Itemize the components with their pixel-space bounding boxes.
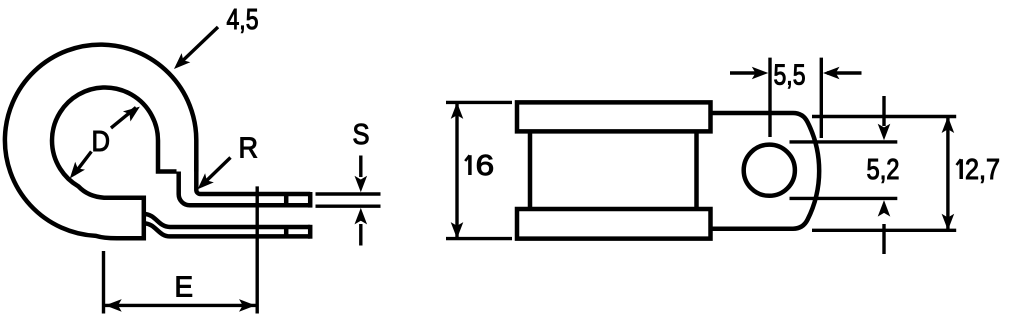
lower strap bottom edge with S-jog xyxy=(144,223,310,236)
dimension 12,7 extension lines xyxy=(812,117,956,231)
lower strap top edge with S-jog xyxy=(144,214,310,227)
svg-text:6: 6 xyxy=(476,150,495,182)
bottom flange rectangle (right view) xyxy=(517,209,711,239)
dimension 16 line with arrows xyxy=(455,104,458,237)
svg-text:2,7: 2,7 xyxy=(965,154,1000,186)
rubber ring outer+inner profile (left view) xyxy=(5,45,196,239)
dimension 5,5 extension lines xyxy=(770,58,821,138)
dimension 16 extension lines xyxy=(446,102,512,238)
svg-text:5,2: 5,2 xyxy=(867,154,900,186)
dimension S arrows xyxy=(359,156,362,178)
dimension S extension lines xyxy=(316,194,381,206)
leader arrow for R xyxy=(201,158,231,187)
svg-text:D: D xyxy=(92,126,111,158)
metal band right edge + top strap top edge xyxy=(196,160,310,194)
dimension 5,5 arrows xyxy=(730,71,762,74)
lower strap inner divider xyxy=(284,227,289,236)
web right vertical xyxy=(694,131,699,209)
label 12,7 xyxy=(957,154,1001,186)
svg-text:4,5: 4,5 xyxy=(227,4,259,36)
metal band left edge + top strap bottom edge xyxy=(179,172,311,206)
lower strap end cap xyxy=(308,225,313,239)
svg-text:R: R xyxy=(239,133,259,165)
web left vertical xyxy=(528,131,533,209)
label 16 xyxy=(465,150,494,182)
tab outline with rounded end xyxy=(711,113,820,229)
dimension 5,2 arrows xyxy=(882,96,885,126)
dimension E line with arrows xyxy=(105,304,256,307)
top flange rectangle (right view) xyxy=(517,102,711,131)
dimension E extension lines xyxy=(104,186,258,313)
svg-text:S: S xyxy=(353,119,370,151)
svg-text:5,5: 5,5 xyxy=(774,60,806,92)
top strap inner divider xyxy=(284,194,289,205)
diameter D double arrow xyxy=(74,108,136,175)
hole in tab xyxy=(744,145,795,196)
svg-text:E: E xyxy=(175,272,194,304)
dimension 5,2 extension lines xyxy=(790,142,898,199)
dimension 12,7 line with arrows xyxy=(946,118,949,229)
leader arrow for 4,5 xyxy=(178,27,219,66)
top strap end cap xyxy=(308,192,313,208)
